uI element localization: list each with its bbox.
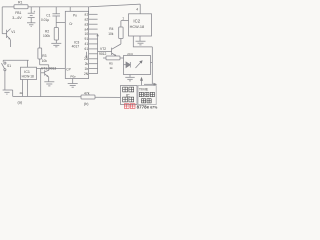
svg-text:(a): (a): [18, 101, 23, 105]
svg-text:V1: V1: [11, 30, 15, 34]
transistor VT2: [98, 44, 121, 56]
svg-text:FB1: FB1: [15, 11, 21, 15]
battery FB1: [28, 7, 35, 23]
TIME box: [138, 86, 156, 105]
switch S1: [2, 60, 6, 90]
svg-text:10k: 10k: [108, 32, 114, 36]
resistor R2: [54, 28, 58, 41]
ground below R2: [51, 43, 61, 47]
arrow inside buzzer box: [136, 62, 142, 68]
IC2 box: [129, 14, 152, 36]
svg-text:1b: 1b: [85, 67, 89, 71]
arrowhead VT2 emitter: [114, 54, 116, 56]
IC1 top pin: [27, 60, 29, 67]
label dian lu (circuit): [123, 97, 134, 102]
svg-text:(b): (b): [84, 102, 89, 106]
svg-text:+: +: [33, 10, 35, 14]
svg-text:3—6V: 3—6V: [12, 16, 22, 20]
wire output arrow right: [144, 83, 154, 85]
red watermark text: [124, 104, 158, 110]
svg-text:R1: R1: [18, 0, 23, 4]
text labels: [7, 0, 149, 105]
svg-text:a4: a4: [85, 27, 89, 31]
arrow inside IC3 near edge: [85, 52, 87, 57]
svg-text:2CU: 2CU: [127, 52, 133, 56]
svg-text:9012: 9012: [99, 52, 107, 56]
svg-text:41: 41: [85, 42, 89, 46]
svg-text:10: 10: [85, 32, 89, 36]
svg-text:HCW-18: HCW-18: [130, 25, 145, 29]
wire rail drop right of IC3: [88, 7, 90, 14]
resistor R1: [14, 5, 28, 9]
main IC box IC3: [65, 11, 88, 78]
svg-text:47k: 47k: [84, 91, 90, 95]
ground below IC2: [136, 41, 146, 45]
label shu ru (input): [142, 99, 152, 103]
svg-text:Pu: Pu: [73, 14, 77, 18]
wire 47k to signal box: [95, 96, 121, 98]
svg-text:2N: 2N: [84, 72, 89, 76]
svg-text:100k: 100k: [43, 34, 50, 38]
svg-text:R2: R2: [45, 29, 49, 33]
pin number labels IC3: [84, 13, 89, 76]
svg-text:4017: 4017: [72, 45, 80, 49]
wire R5 to buzzer box: [120, 57, 124, 59]
buzzer box right pin: [151, 62, 153, 64]
svg-text:0.01μ: 0.01μ: [41, 18, 49, 22]
svg-text:VT1: 9013: VT1: 9013: [41, 67, 56, 71]
resistor R4: [119, 21, 123, 44]
signal IC box: [121, 86, 138, 105]
svg-text:IC2: IC2: [133, 19, 140, 24]
arrowhead V1 emitter: [8, 38, 10, 40]
svg-text:IC: IC: [126, 93, 130, 98]
svg-text:VT2: VT2: [100, 47, 106, 51]
ground below battery: [27, 23, 35, 27]
ground below VT1: [44, 82, 54, 86]
svg-text:10k: 10k: [42, 59, 48, 63]
svg-text:a1: a1: [85, 13, 89, 17]
svg-text:P0z: P0z: [70, 75, 76, 79]
svg-text:HCW-18: HCW-18: [22, 74, 34, 78]
svg-text:R3: R3: [42, 54, 46, 58]
ground below buzzer: [125, 77, 134, 81]
wire IC2 second pin to right vertical: [133, 36, 152, 47]
resistor 47k: [81, 95, 95, 99]
svg-text:8778e: 8778e: [137, 105, 150, 110]
wire IC1 to IC3 CP pin: [37, 67, 66, 69]
arrow up from TIME box: [141, 80, 143, 86]
wire bottom left: [3, 89, 13, 91]
svg-text:IC1: IC1: [24, 70, 30, 74]
wire R2 to ground: [55, 40, 57, 43]
label shuang yin pin: [139, 92, 154, 96]
transistor V1: [2, 29, 10, 47]
svg-text:91: 91: [85, 37, 89, 41]
IC3 bottom pin: [72, 79, 74, 84]
IC1 bottom pins: [22, 80, 24, 97]
svg-text:1k: 1k: [110, 66, 114, 70]
IC2 pin 1 stub: [121, 20, 129, 22]
wire down to bottom rail: [12, 90, 14, 96]
svg-text:67%: 67%: [150, 105, 158, 109]
svg-text:2Ω: 2Ω: [84, 57, 89, 61]
svg-text:1: 1: [122, 16, 124, 20]
buzzer box: [124, 56, 151, 75]
resistor R3: [38, 7, 42, 65]
svg-text:2k: 2k: [85, 62, 89, 66]
arrowhead VT1 emitter: [46, 75, 48, 77]
resistor R5: [103, 57, 106, 59]
svg-text:a3: a3: [85, 22, 89, 26]
red zhong yao glyphs: [124, 104, 129, 109]
svg-text:CP: CP: [66, 68, 70, 72]
wire right vertical: [151, 47, 153, 84]
wire bottom rail: [13, 95, 81, 97]
ground below IC3: [68, 84, 78, 88]
wire left rail: [1, 7, 3, 34]
svg-text:TIME: TIME: [139, 86, 149, 91]
CJK fake glyphs: [123, 87, 155, 103]
capacitor C1: [52, 7, 60, 28]
svg-text:C1: C1: [46, 13, 50, 17]
wire bus with up arrow: [97, 36, 99, 74]
label xin hao (signal): [123, 87, 134, 92]
transistor VT1: [41, 65, 49, 82]
IC1 box: [21, 67, 37, 79]
IC3 right pin stubs: [89, 14, 98, 73]
wire S1 rail: [3, 59, 29, 61]
svg-text:S1: S1: [7, 64, 11, 68]
IC2 top pin: [139, 4, 141, 14]
svg-text:4: 4: [136, 7, 138, 11]
ground marks below S1 wire: [4, 92, 9, 94]
svg-text:a2: a2: [85, 17, 89, 21]
svg-text:61: 61: [85, 47, 89, 51]
LED inside buzzer box: [124, 62, 131, 68]
wire node C1 to IC3 Cr pin: [56, 21, 65, 23]
svg-text:2k: 2k: [20, 91, 24, 95]
IC2 ground pin: [139, 36, 141, 41]
wire top rail: [2, 4, 140, 7]
buzzer box bottom pin: [129, 75, 131, 78]
wire R3 bottom to VT1 collector: [40, 64, 49, 66]
svg-text:R4: R4: [109, 27, 113, 31]
IC3 top pin: [69, 7, 71, 11]
